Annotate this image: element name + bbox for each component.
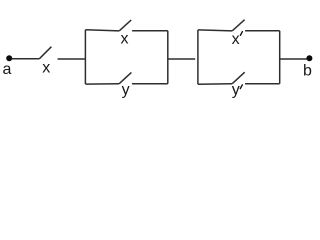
node b (306, 55, 312, 61)
box 2 top branch left wire (198, 30, 232, 31)
svg-text:x: x (42, 59, 50, 76)
wire node a to switch x (12, 58, 40, 60)
svg-text:b: b (303, 62, 312, 79)
wire switch x to box 1 (58, 58, 86, 60)
switch y blade (119, 72, 131, 83)
box 1 top branch left wire (85, 30, 119, 31)
box 1 right vertical wire (167, 31, 169, 84)
box 2 left vertical wire (197, 30, 199, 84)
svg-text:a: a (3, 61, 12, 78)
switch x top branch blade (119, 20, 131, 31)
box 2 bottom branch left wire (198, 83, 232, 86)
box 2 right vertical wire (279, 31, 281, 84)
svg-text:y: y (122, 82, 130, 99)
box 1 bottom branch right wire (132, 83, 168, 85)
wire box 2 to node b (280, 58, 308, 60)
switch x-prime blade (232, 20, 244, 31)
box 1 top branch right wire (132, 30, 168, 32)
box 1 bottom branch left wire (85, 83, 119, 85)
prime mark of x-prime label (240, 32, 242, 36)
svg-text:x: x (232, 31, 240, 48)
wire box 1 to box 2 (168, 58, 195, 60)
box 1 left vertical wire (84, 30, 86, 84)
svg-text:x: x (121, 30, 129, 47)
switch y-prime blade (232, 72, 245, 84)
box 2 top branch right wire (245, 30, 280, 32)
prime mark of y-prime label (240, 85, 242, 89)
box 2 bottom branch right wire (245, 83, 280, 85)
switch x blade (39, 47, 51, 59)
node a (6, 55, 12, 61)
svg-text:y: y (232, 82, 240, 99)
